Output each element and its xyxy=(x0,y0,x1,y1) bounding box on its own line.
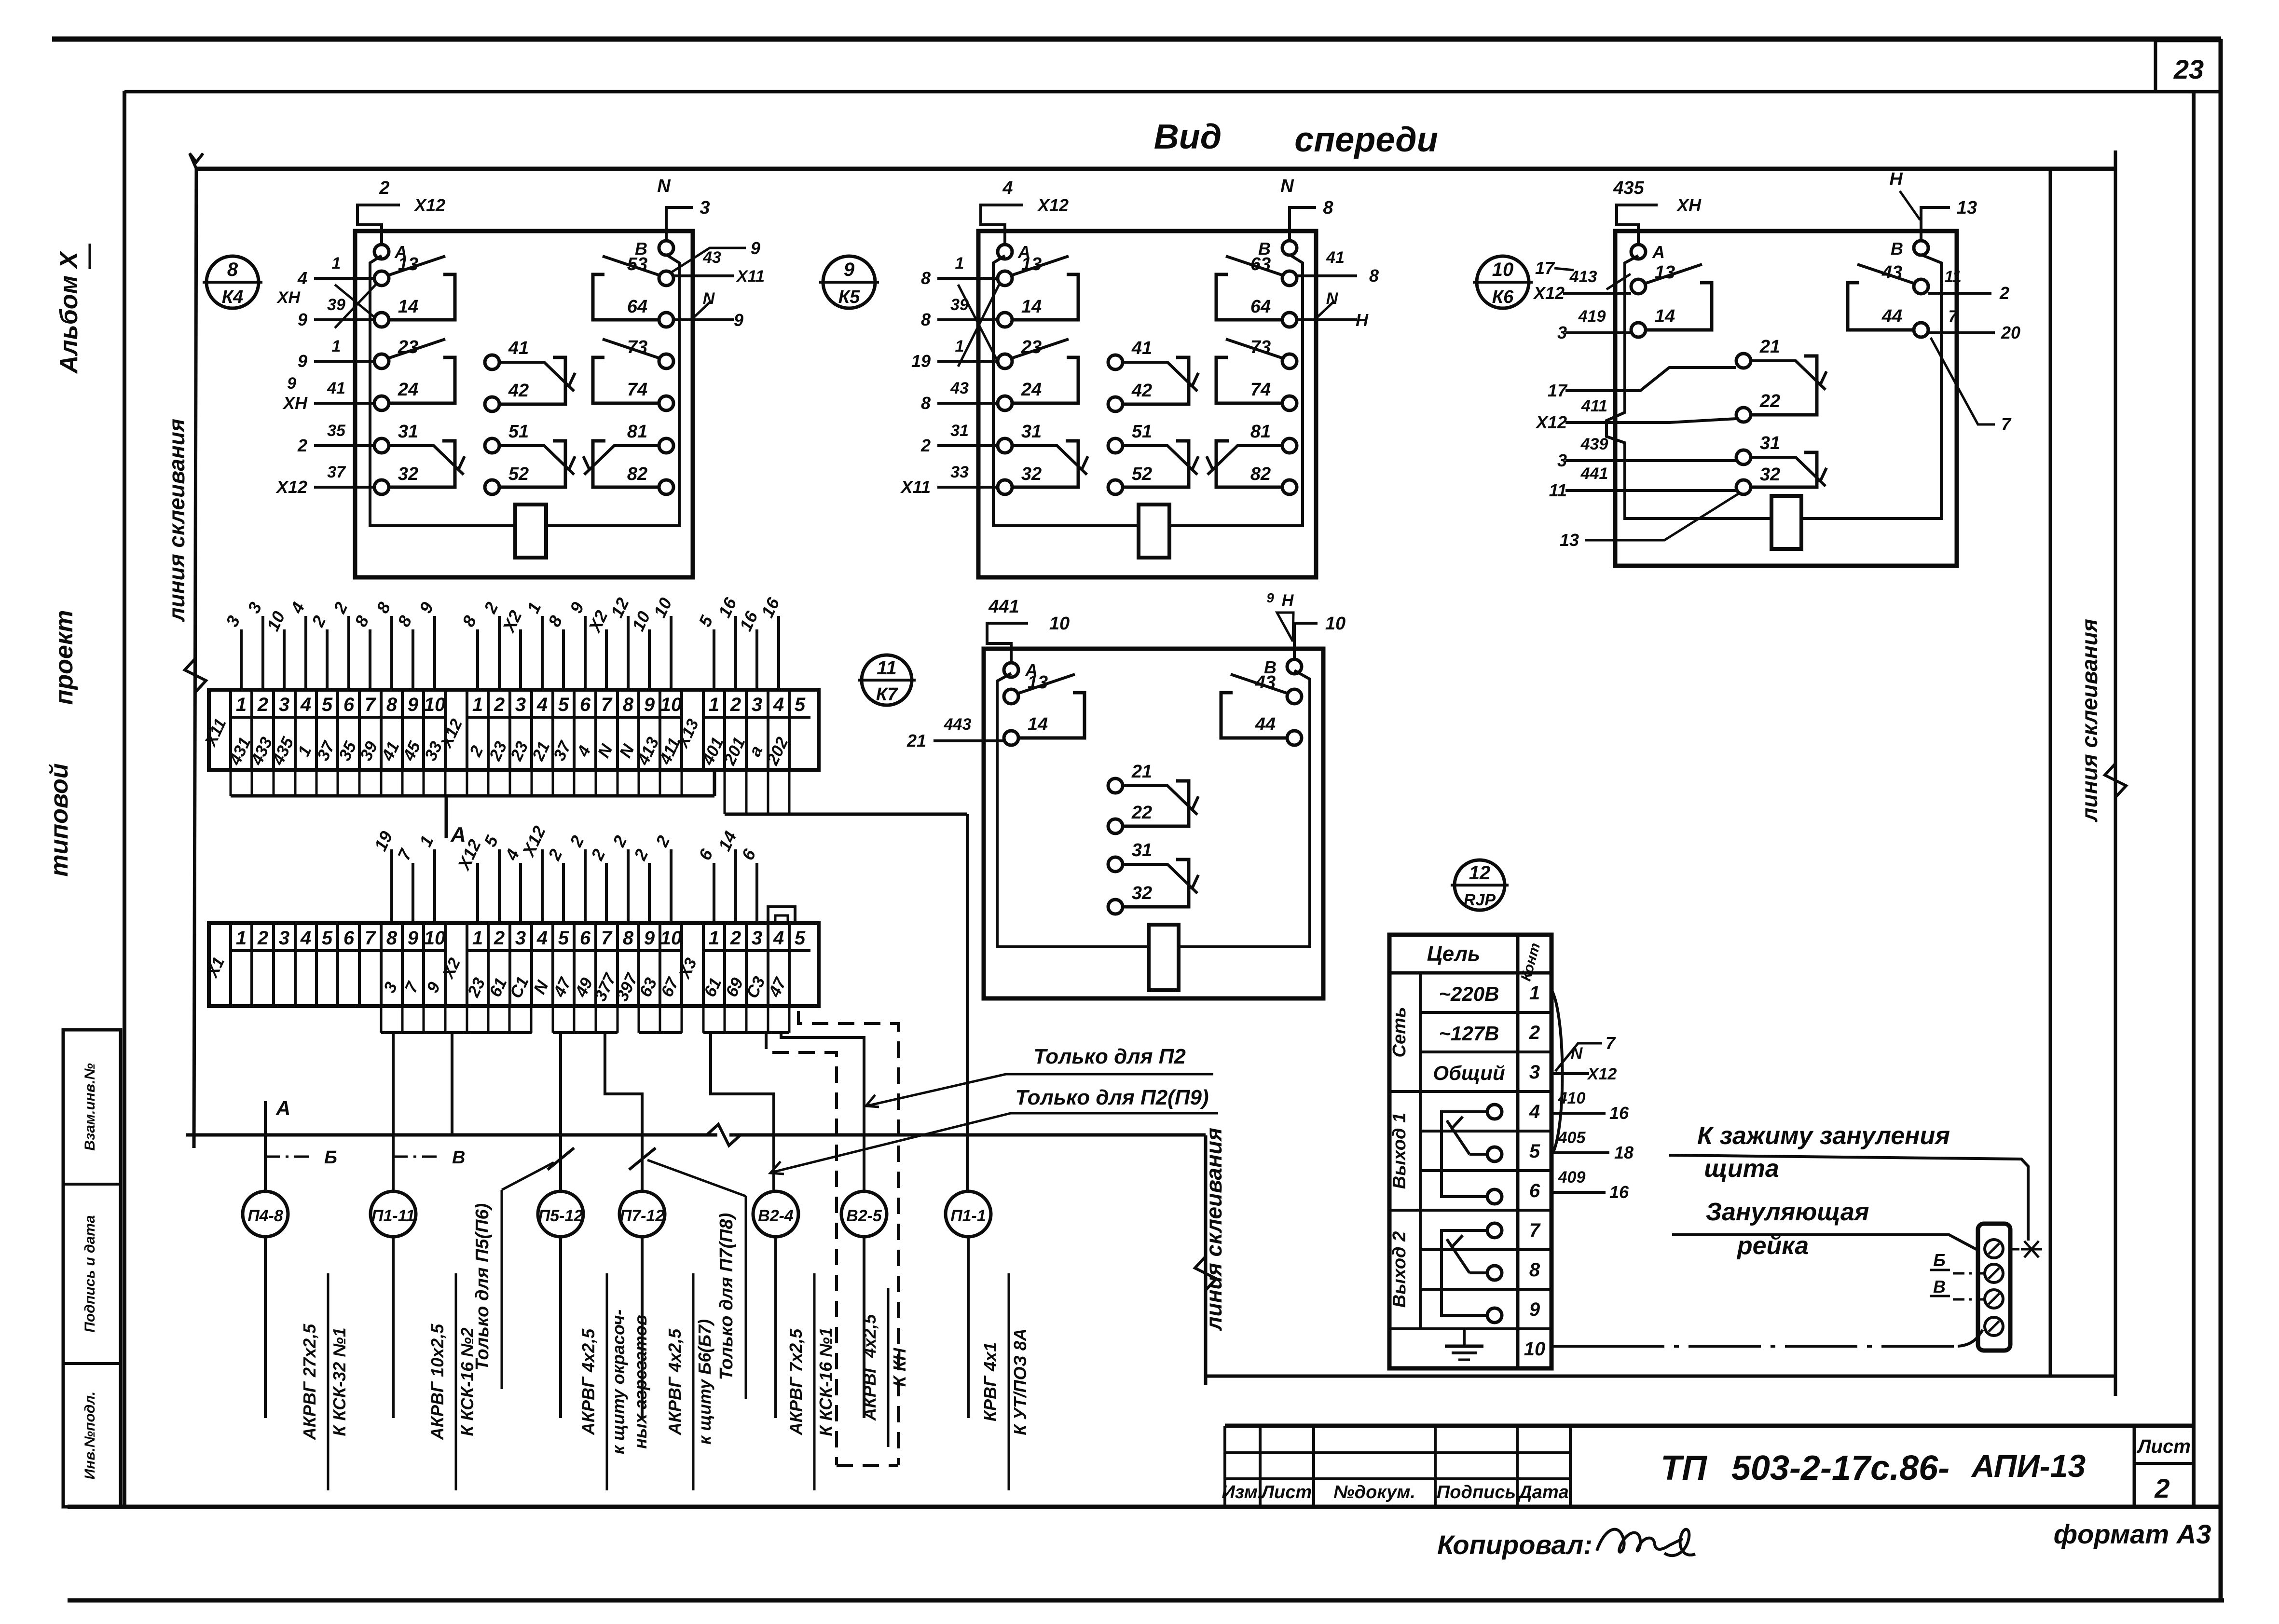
svg-text:5: 5 xyxy=(795,694,806,715)
svg-text:13: 13 xyxy=(1560,530,1579,550)
svg-text:73: 73 xyxy=(1250,337,1271,357)
relay K6 contact 31-32 xyxy=(1736,433,1826,494)
svg-text:10: 10 xyxy=(660,928,682,949)
svg-text:линия склеивания: линия склеивания xyxy=(164,419,189,622)
svg-text:22: 22 xyxy=(1131,803,1152,823)
svg-text:Только для П2: Только для П2 xyxy=(1033,1045,1186,1068)
rail terminal 3 xyxy=(1985,1290,2003,1308)
cable P4-8 riser with node A xyxy=(265,1097,290,1191)
terminal strip Х1 connector cell X-3 xyxy=(675,923,703,1006)
left margin stamp boxes xyxy=(63,1030,121,1507)
svg-text:Копировал:: Копировал: xyxy=(1437,1529,1593,1560)
svg-text:43: 43 xyxy=(950,379,969,397)
relay K6 wire 439 to contact 31 xyxy=(1557,435,1736,470)
svg-text:6: 6 xyxy=(580,694,591,715)
svg-text:44: 44 xyxy=(1881,306,1902,327)
cable V2-4 riser xyxy=(711,1033,774,1191)
svg-text:13: 13 xyxy=(1957,198,1977,218)
svg-text:13: 13 xyxy=(1021,254,1042,274)
svg-text:14: 14 xyxy=(398,297,418,317)
svg-text:А: А xyxy=(275,1097,290,1119)
terminal strip Х11 label cell xyxy=(201,690,231,770)
svg-text:Х12: Х12 xyxy=(413,195,445,215)
svg-text:П1-1: П1-1 xyxy=(950,1207,986,1225)
svg-text:19: 19 xyxy=(911,351,931,371)
terminal strip Х11 wire numbers xyxy=(225,734,792,768)
svg-text:Х11: Х11 xyxy=(736,267,765,286)
svg-text:2: 2 xyxy=(494,928,505,949)
relay К5 contact 41-42 xyxy=(1108,338,1198,411)
svg-text:18: 18 xyxy=(1614,1143,1634,1162)
cable В2-5 designation xyxy=(860,1288,909,1447)
node B label at rail xyxy=(1930,1250,1984,1273)
relay К5 terminal A xyxy=(998,242,1030,262)
terminal strip Х1 connector cell X-2 xyxy=(439,923,467,1006)
sheet number box 23 xyxy=(2155,41,2221,92)
svg-text:4: 4 xyxy=(1002,178,1013,198)
terminal strip Х11 connector cell X-3 xyxy=(673,690,703,770)
terminal strip Х1 incoming wires xyxy=(371,823,760,923)
svg-text:Сеть: Сеть xyxy=(1389,1007,1410,1058)
relay К4 contact 23-24 xyxy=(374,337,455,410)
bus line A with break xyxy=(186,1124,1206,1146)
svg-text:4: 4 xyxy=(297,268,307,288)
relay K6 wire 441 to contact 32 xyxy=(1549,464,1736,500)
svg-text:1: 1 xyxy=(472,694,483,715)
svg-text:22: 22 xyxy=(1759,391,1780,411)
relay K4 wire 9 from contact 53 xyxy=(671,238,760,273)
relay K4 wire 1 to contact 13 xyxy=(297,254,374,288)
svg-text:Лист: Лист xyxy=(1260,1482,1312,1502)
node V dash-dot xyxy=(393,1147,465,1168)
svg-text:Подпись и дата: Подпись и дата xyxy=(82,1215,98,1332)
cable В2-5 line below xyxy=(863,1237,865,1418)
relay K7 coil wire from A xyxy=(997,673,1149,947)
svg-text:К УТ/ПОЗ 8А: К УТ/ПОЗ 8А xyxy=(1010,1328,1030,1435)
svg-text:5: 5 xyxy=(322,694,333,715)
relay K7 coil wire from B xyxy=(1179,670,1310,947)
svg-text:Инв.№подл.: Инв.№подл. xyxy=(82,1392,98,1480)
note grounding rail xyxy=(1672,1198,1978,1260)
relay K7 contact 21-22 xyxy=(1108,762,1198,833)
svg-text:31: 31 xyxy=(398,422,418,442)
svg-text:41: 41 xyxy=(1131,338,1152,358)
cable П1-11 designation xyxy=(427,1273,477,1490)
relay K4 wire to A (2 X12) xyxy=(357,178,445,245)
node B dash-dot xyxy=(265,1147,337,1168)
note only for P2(P9) xyxy=(770,1086,1218,1174)
note only for P2 xyxy=(866,1045,1213,1107)
relay K6 outline xyxy=(1615,231,1957,566)
svg-text:RJP: RJP xyxy=(1464,891,1496,909)
page top cut line xyxy=(52,37,2221,42)
svg-text:8: 8 xyxy=(227,259,238,280)
svg-text:10: 10 xyxy=(1524,1338,1546,1360)
cable P7-12 riser xyxy=(605,1033,656,1191)
svg-text:2: 2 xyxy=(730,694,741,715)
svg-text:74: 74 xyxy=(627,380,647,400)
cable P1-11 riser xyxy=(392,1033,395,1191)
relay K5 wire 1 to contact 23 xyxy=(911,337,998,371)
relay K4 wire 9 N from contact 64 xyxy=(673,289,743,330)
svg-text:9: 9 xyxy=(298,351,307,371)
svg-text:44: 44 xyxy=(1255,714,1276,735)
svg-text:9: 9 xyxy=(408,694,419,715)
relay K6 wire 17 to contact 21 xyxy=(1548,368,1736,400)
svg-text:10: 10 xyxy=(1325,614,1345,634)
relay К4 contact 51-52 xyxy=(485,422,575,494)
relay К4 coil wire from B xyxy=(546,255,679,526)
svg-text:33: 33 xyxy=(950,463,969,481)
svg-text:3: 3 xyxy=(1557,323,1567,342)
note only for P7(P8) xyxy=(647,1160,746,1399)
svg-text:к щиту окрасоч-: к щиту окрасоч- xyxy=(608,1310,628,1454)
svg-text:8: 8 xyxy=(1323,198,1333,218)
svg-text:В: В xyxy=(1891,239,1903,259)
cable В2-4 designation xyxy=(786,1273,836,1490)
cable circle В2-5 xyxy=(841,1191,887,1237)
RJP wire 410 16 from row 4 xyxy=(1551,1089,1629,1123)
svg-text:16: 16 xyxy=(1609,1103,1629,1123)
cable P1-1 riser xyxy=(966,814,969,1191)
relay К4 contact 53-64 xyxy=(593,254,673,327)
relay К5 contact 13-14 xyxy=(998,254,1078,327)
svg-text:4: 4 xyxy=(773,694,784,715)
svg-text:N: N xyxy=(703,289,715,308)
relay K5 wire to B (N 8) xyxy=(1280,176,1333,241)
relay K5 crossing wires near 13-23 xyxy=(958,285,999,367)
svg-text:3: 3 xyxy=(752,928,762,949)
svg-text:типовой: типовой xyxy=(45,763,73,876)
svg-text:37: 37 xyxy=(327,463,346,481)
svg-text:линия склеивания: линия склеивания xyxy=(1201,1128,1226,1331)
svg-text:441: 441 xyxy=(1580,464,1608,483)
svg-text:17: 17 xyxy=(1535,258,1555,278)
cable circle П5-12 xyxy=(538,1191,583,1237)
svg-text:10: 10 xyxy=(424,694,446,715)
svg-text:формат А3: формат А3 xyxy=(2054,1519,2211,1549)
svg-text:32: 32 xyxy=(1760,464,1780,485)
relay K6 wire 419 to contact 14 xyxy=(1557,307,1631,342)
svg-text:503-2-17с.86-: 503-2-17с.86- xyxy=(1731,1449,1950,1488)
svg-text:52: 52 xyxy=(1132,464,1152,484)
svg-text:4: 4 xyxy=(1529,1101,1540,1122)
svg-text:9: 9 xyxy=(298,310,307,329)
terminal strip X1 outgoing stubs xyxy=(381,1006,789,1033)
svg-text:2: 2 xyxy=(379,178,389,198)
relay K7 wire 441 10 to A xyxy=(987,597,1070,663)
svg-text:Только для П5(П6): Только для П5(П6) xyxy=(472,1203,493,1371)
svg-text:2: 2 xyxy=(257,928,268,949)
rail terminal 2 xyxy=(1985,1264,2003,1283)
relay K12 RJP designator circle xyxy=(1451,860,1509,910)
relay K7 outline xyxy=(984,649,1323,998)
panel bottom edge line xyxy=(1206,1375,2115,1378)
svg-text:проект: проект xyxy=(50,610,78,705)
svg-text:42: 42 xyxy=(1131,381,1152,401)
svg-text:Выход 1: Выход 1 xyxy=(1389,1113,1410,1189)
terminal strip Х11 cells xyxy=(231,690,810,770)
relay К4 contact 13-14 xyxy=(374,254,455,327)
svg-text:Б: Б xyxy=(1933,1250,1946,1270)
svg-text:к щиту Б6(Б7): к щиту Б6(Б7) xyxy=(695,1319,714,1445)
relay K7 coil xyxy=(1149,925,1179,990)
svg-text:441: 441 xyxy=(988,597,1019,617)
svg-text:51: 51 xyxy=(1132,422,1152,442)
terminal strip Х1 wire numbers xyxy=(380,970,790,1004)
relay K7 designator circle xyxy=(858,655,916,705)
svg-text:435: 435 xyxy=(1613,178,1644,198)
svg-text:10: 10 xyxy=(660,694,682,715)
svg-text:23: 23 xyxy=(2173,54,2204,84)
RJP output 1 contact xyxy=(1442,1105,1502,1204)
svg-text:АКРВГ 7х2,5: АКРВГ 7х2,5 xyxy=(786,1328,806,1435)
svg-text:Цель: Цель xyxy=(1427,942,1481,966)
relay K6 wire 435 to A xyxy=(1613,178,1702,245)
svg-text:Взам.инв.№: Взам.инв.№ xyxy=(82,1063,98,1150)
relay K6 contact 43-44 xyxy=(1848,262,1928,337)
svg-text:5: 5 xyxy=(558,928,569,949)
svg-text:К КСК-32 №1: К КСК-32 №1 xyxy=(329,1327,349,1436)
cable П4-8 designation xyxy=(300,1273,349,1490)
svg-text:N: N xyxy=(1571,1044,1583,1063)
RJP output 2 contact xyxy=(1442,1223,1502,1323)
svg-text:К5: К5 xyxy=(838,287,860,307)
cable П7-12 designation xyxy=(665,1273,714,1490)
svg-text:6: 6 xyxy=(343,694,355,715)
svg-text:6: 6 xyxy=(343,928,355,949)
svg-text:Дата: Дата xyxy=(1517,1482,1569,1502)
cable V2-5 riser xyxy=(781,1033,864,1191)
svg-text:1: 1 xyxy=(332,337,341,355)
relay K6 terminal B xyxy=(1891,239,1928,259)
svg-text:АКРВГ 27х2,5: АКРВГ 27х2,5 xyxy=(300,1324,319,1440)
svg-text:1: 1 xyxy=(955,254,964,273)
svg-text:6: 6 xyxy=(580,928,591,949)
svg-text:3: 3 xyxy=(700,198,710,218)
svg-text:31: 31 xyxy=(950,422,969,440)
relay K6 wire 413 to contact 13 xyxy=(1533,258,1631,303)
svg-text:АКРВГ 4х2,5: АКРВГ 4х2,5 xyxy=(578,1328,598,1435)
svg-text:53: 53 xyxy=(627,254,647,274)
svg-text:443: 443 xyxy=(944,715,972,734)
svg-text:52: 52 xyxy=(508,464,529,484)
svg-text:14: 14 xyxy=(1655,306,1675,327)
svg-text:8: 8 xyxy=(623,928,634,949)
svg-text:Х12: Х12 xyxy=(1535,412,1567,432)
svg-text:9: 9 xyxy=(1529,1299,1540,1320)
svg-text:32: 32 xyxy=(1021,464,1042,484)
svg-text:ТП: ТП xyxy=(1661,1449,1708,1488)
terminal strip X11 outgoing stubs xyxy=(231,770,714,796)
cable П1-11 line below xyxy=(392,1237,395,1418)
relay K4 wire 37 to contact 32 xyxy=(275,463,374,497)
svg-text:3: 3 xyxy=(279,694,289,715)
svg-text:1: 1 xyxy=(1529,983,1540,1004)
svg-text:3: 3 xyxy=(515,694,526,715)
svg-text:В2-5: В2-5 xyxy=(846,1207,882,1225)
svg-text:3: 3 xyxy=(1557,450,1567,470)
svg-text:3: 3 xyxy=(752,694,762,715)
star marker xyxy=(2012,1241,2042,1257)
svg-text:17: 17 xyxy=(1548,381,1568,400)
RJP table row lines xyxy=(1389,973,1551,1329)
svg-text:8: 8 xyxy=(921,310,931,329)
svg-text:31: 31 xyxy=(1760,433,1780,453)
glue line right xyxy=(2105,150,2126,1396)
relay K5 designator circle xyxy=(819,256,879,308)
relay K4 wire to B (N 3) xyxy=(657,176,710,241)
svg-text:К КН: К КН xyxy=(890,1348,909,1387)
svg-text:Лист: Лист xyxy=(2136,1436,2191,1457)
svg-text:10: 10 xyxy=(1492,259,1514,280)
svg-text:ХН: ХН xyxy=(276,288,301,307)
svg-text:В: В xyxy=(452,1147,465,1168)
relay K5 wire 33 to contact 32 xyxy=(900,463,998,497)
relay K7 wire 443 to contact 14 xyxy=(906,715,1004,751)
relay K6 wire 7 20 from contact 44 xyxy=(1928,307,2020,434)
svg-text:линия склеивания: линия склеивания xyxy=(2077,619,2102,822)
svg-text:Вид: Вид xyxy=(1154,118,1222,156)
svg-text:1: 1 xyxy=(472,928,483,949)
svg-text:410: 410 xyxy=(1558,1089,1586,1107)
page bottom cut line xyxy=(68,1598,2224,1603)
RJP group labels xyxy=(1389,1007,1410,1308)
svg-text:439: 439 xyxy=(1580,435,1608,453)
svg-text:7: 7 xyxy=(1529,1220,1541,1241)
svg-text:11: 11 xyxy=(1549,480,1567,500)
svg-text:7: 7 xyxy=(2001,414,2012,434)
svg-text:1: 1 xyxy=(709,928,719,949)
svg-text:21: 21 xyxy=(1759,337,1780,357)
relay K5 wire 31 to contact 31 xyxy=(920,422,998,455)
svg-text:9: 9 xyxy=(644,928,655,949)
svg-text:10: 10 xyxy=(424,928,446,949)
relay K5 wire 41 8 from contact 63 xyxy=(1297,248,1379,286)
relay К4 terminal B xyxy=(635,239,673,259)
svg-text:~127В: ~127В xyxy=(1439,1022,1499,1045)
svg-text:3: 3 xyxy=(515,928,526,949)
svg-text:АКРВГ 10х2,5: АКРВГ 10х2,5 xyxy=(427,1324,447,1440)
rail terminal 4 xyxy=(1985,1317,2003,1336)
terminal strip Х1 label cell xyxy=(203,923,231,1006)
svg-text:13: 13 xyxy=(1655,262,1675,283)
cable A drop from X11 xyxy=(446,796,466,846)
relay K5 wire 1 to contact 13 xyxy=(921,254,998,288)
svg-text:Альбом Х: Альбом Х xyxy=(55,250,83,375)
grounding rail xyxy=(1978,1224,2010,1351)
relay К4 contact 31-32 xyxy=(374,422,465,494)
svg-text:Зануляющая: Зануляющая xyxy=(1706,1198,1869,1226)
terminal strip Х1 outline xyxy=(209,923,819,1006)
svg-text:5: 5 xyxy=(1529,1141,1540,1162)
relay K5 wire to A (4 X12) xyxy=(981,178,1069,245)
relay К5 outline xyxy=(978,231,1316,577)
svg-text:8: 8 xyxy=(921,393,931,413)
svg-text:82: 82 xyxy=(1250,464,1271,484)
rail terminal 1 xyxy=(1985,1240,2003,1258)
svg-text:К6: К6 xyxy=(1492,287,1514,307)
svg-text:4: 4 xyxy=(536,928,548,949)
RJP contact numbers xyxy=(1524,983,1546,1360)
svg-text:Только для П7(П8): Только для П7(П8) xyxy=(716,1213,737,1380)
svg-text:21: 21 xyxy=(906,731,926,751)
svg-text:73: 73 xyxy=(627,337,647,357)
svg-text:11: 11 xyxy=(1944,268,1961,286)
relay К5 contact 31-32 xyxy=(998,422,1088,494)
svg-text:7: 7 xyxy=(365,928,376,949)
svg-text:П1-11: П1-11 xyxy=(371,1207,415,1225)
svg-text:ХН: ХН xyxy=(1676,195,1702,215)
relay K4 wire 35 to contact 31 xyxy=(297,422,374,455)
svg-text:2: 2 xyxy=(257,694,268,715)
svg-text:1: 1 xyxy=(236,928,247,949)
relay K4 crossing wires near 13-14 xyxy=(335,285,376,328)
glue line middle xyxy=(1195,1135,1216,1385)
cable circle П7-12 xyxy=(619,1191,665,1237)
svg-text:спереди: спереди xyxy=(1294,121,1438,159)
svg-text:81: 81 xyxy=(627,422,647,442)
svg-text:32: 32 xyxy=(398,464,418,484)
svg-text:3: 3 xyxy=(279,928,289,949)
svg-text:АКРВГ 4х2,5: АКРВГ 4х2,5 xyxy=(860,1314,879,1421)
svg-text:2: 2 xyxy=(1999,283,2009,303)
svg-text:Н: Н xyxy=(1889,169,1903,190)
relay K6 contact 21-22 xyxy=(1736,337,1826,422)
page right edge line xyxy=(2219,39,2223,1600)
svg-text:4: 4 xyxy=(773,928,784,949)
svg-text:13: 13 xyxy=(398,254,418,274)
svg-text:2: 2 xyxy=(920,436,931,455)
svg-text:81: 81 xyxy=(1250,422,1271,442)
relay К4 terminal A xyxy=(374,242,407,262)
svg-text:Только для П2(П9): Только для П2(П9) xyxy=(1015,1086,1208,1109)
svg-text:Выход 2: Выход 2 xyxy=(1389,1231,1410,1308)
svg-text:24: 24 xyxy=(398,380,418,400)
svg-text:2: 2 xyxy=(2154,1473,2169,1503)
relay K7 terminal B xyxy=(1264,657,1302,677)
svg-text:31: 31 xyxy=(1132,840,1152,860)
svg-text:51: 51 xyxy=(508,422,529,442)
terminal strip X11 right stubs to P1-1 xyxy=(725,770,967,814)
svg-text:9: 9 xyxy=(751,238,760,258)
relay K5 wire 43 to contact 24 xyxy=(921,379,998,413)
relay K6 wire 411 to contact 22 xyxy=(1535,397,1736,432)
svg-text:№докум.: №докум. xyxy=(1333,1482,1415,1502)
terminal strip Х11 outline xyxy=(209,690,819,770)
svg-text:К7: К7 xyxy=(876,684,898,705)
note only for P5(P6) xyxy=(472,1162,554,1389)
relay K7 terminal A xyxy=(1004,660,1038,680)
relay К4 outline xyxy=(355,231,693,577)
RJP table header xyxy=(1389,935,1551,1368)
svg-text:П7-12: П7-12 xyxy=(620,1207,665,1225)
document designation TP 503-2-17s.86 API-13 xyxy=(1661,1448,2086,1488)
svg-text:10: 10 xyxy=(1049,614,1070,634)
svg-text:1: 1 xyxy=(236,694,247,715)
svg-text:1: 1 xyxy=(709,694,719,715)
svg-text:32: 32 xyxy=(1132,883,1152,903)
panel right edge line xyxy=(2049,169,2052,1376)
relay К4 coil xyxy=(515,505,546,558)
cable П1-1 line below xyxy=(967,1237,970,1418)
svg-text:Х11: Х11 xyxy=(900,477,931,497)
relay К5 coil wire from B xyxy=(1169,255,1303,526)
relay К5 coil xyxy=(1139,505,1169,558)
svg-text:82: 82 xyxy=(627,464,647,484)
svg-text:ных агрегатов: ных агрегатов xyxy=(631,1315,650,1449)
svg-text:~220В: ~220В xyxy=(1439,983,1499,1005)
